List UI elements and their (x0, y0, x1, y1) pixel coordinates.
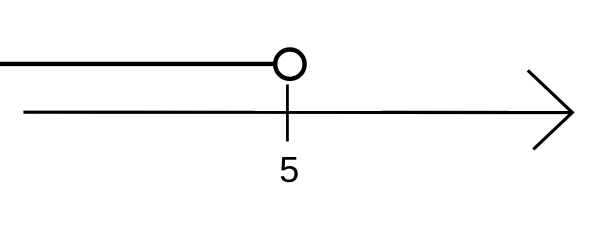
arrowhead at right end of number line (528, 70, 573, 149)
ray for x less than 5 (thick segment from left edge to open circle) (0, 62, 276, 66)
tick mark at 5 (286, 85, 289, 142)
number line axis (23, 111, 572, 115)
svg-text:5: 5 (279, 149, 299, 190)
open circle at 5 (excluded endpoint) (275, 49, 304, 78)
